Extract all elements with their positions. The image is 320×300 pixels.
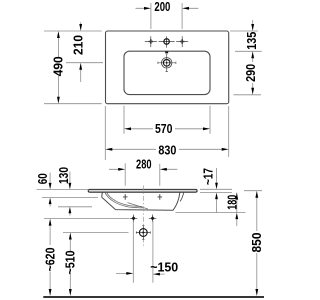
~17 top outside arrow [215, 183, 218, 190]
dim ~17: stems [216, 168, 218, 213]
dim 570: extension lines [124, 106, 210, 134]
drain (front view) [136, 226, 150, 240]
svg-text:290: 290 [244, 64, 258, 82]
dim 850: line [256, 197, 258, 292]
dim 200: line + outside stems [136, 7, 199, 9]
150 left outside arrow [126, 272, 133, 275]
drain center dot [166, 62, 168, 64]
svg-text:210: 210 [71, 35, 85, 55]
dim 60: lower boundary ext [42, 197, 98, 199]
fixing hole upper-left (cross) [123, 194, 128, 200]
dim 850: top ext [244, 190, 262, 192]
dim 150: extension lines [133, 221, 153, 283]
svg-text:200: 200 [154, 0, 170, 14]
arrowheads, top view [57, 7, 254, 151]
drain outer circle [162, 58, 172, 68]
bowl inner curve line 1 [107, 192, 143, 206]
washbasin outer rim (plan) [106, 31, 229, 104]
centerline (dash-dot) [142, 186, 144, 249]
floor line [43, 296, 264, 298]
dim 510: line [69, 238, 71, 291]
lower fixing point right (diamond) [149, 215, 157, 223]
lower fixing level ext [44, 218, 129, 220]
svg-text:~620: ~620 [43, 247, 57, 271]
rim slab (front view, filled bar) [88, 189, 197, 192]
dim 280: extension lines [125, 163, 160, 186]
svg-text:180: 180 [226, 195, 240, 210]
135/290 shared arrow at 51.3 [251, 51, 254, 58]
830 right arrow [222, 148, 229, 151]
210 top outside arrow [79, 24, 82, 31]
200 right outside arrow [182, 7, 189, 10]
fixing hole upper-right (cross) [158, 194, 163, 200]
svg-text:850: 850 [250, 232, 264, 252]
dim 130: lower stem [69, 212, 71, 216]
svg-text:~510: ~510 [64, 250, 78, 274]
510 bottom arrow [69, 289, 72, 296]
bowl right inner hook [180, 192, 184, 201]
dimension texts, lower view [36, 158, 264, 275]
faucet hole left (cross) [145, 36, 157, 47]
dim 830: extension lines [105, 106, 228, 160]
lower fixing point left (diamond) [130, 215, 138, 223]
dim 570: line [130, 128, 204, 130]
svg-text:135: 135 [245, 32, 259, 50]
svg-text:130: 130 [57, 167, 71, 184]
arrowheads, lower view [49, 168, 259, 296]
slab top extension left [37, 188, 89, 190]
svg-text:60: 60 [36, 173, 50, 184]
570 left arrow [124, 127, 131, 130]
dim 280: outside stems [109, 168, 177, 170]
dim ~17: extension lines [200, 189, 232, 192]
130 top outside arrow [69, 183, 72, 190]
bowl underside outline [102, 192, 180, 210]
~17 bottom outside arrow [215, 193, 218, 200]
dim 620: line [49, 224, 51, 291]
dim 130: upper stem [69, 172, 71, 185]
dim 200: extension lines [151, 3, 182, 29]
dim 290: line segments [252, 56, 254, 90]
280 left outside arrow [118, 168, 125, 171]
60 top outside arrow [49, 183, 52, 190]
bowl inner curve line 2 [105, 192, 143, 208]
dim 210: lower boundary line (drain centerline ext) [66, 62, 103, 64]
290 bottom arrow [251, 88, 254, 95]
dim 60: lower stem [49, 203, 51, 207]
dim 150: left stem [116, 272, 165, 275]
dim 490: extension lines [44, 31, 102, 104]
bowl diagonal strut [128, 203, 149, 209]
faucet hole right (cross) [176, 36, 188, 47]
drain inner circle [163, 60, 170, 67]
180 bottom outside arrow [235, 213, 238, 220]
280 right outside arrow [160, 168, 167, 171]
svg-text:830: 830 [158, 144, 176, 158]
490 top arrow [57, 31, 60, 38]
drain (plan): crosshair [158, 54, 176, 72]
dim 135: upper stem [252, 20, 254, 25]
620 bottom arrow [49, 289, 52, 296]
135 top outside arrow [251, 24, 254, 31]
dim 130: lower boundary ext [58, 206, 92, 208]
dim 135/290: extension lines right [230, 31, 262, 95]
svg-text:490: 490 [52, 56, 66, 76]
dimension texts, top view [52, 0, 260, 158]
210 bottom outside arrow [79, 63, 82, 70]
dim 60: upper stem [49, 173, 51, 185]
130 bottom outside arrow [69, 207, 72, 214]
dim 830: line [111, 148, 223, 150]
svg-text:~17: ~17 [201, 168, 215, 185]
490 bottom arrow [57, 97, 60, 104]
510 top arrow [69, 233, 72, 240]
dim 210: stems [80, 22, 82, 82]
faucet hole middle (circle + cross) [159, 36, 175, 47]
svg-text:280: 280 [136, 158, 152, 172]
drain level ext [63, 232, 129, 234]
850 bottom arrow [255, 289, 258, 296]
180 top arrow [235, 193, 238, 200]
830 left arrow [105, 148, 112, 151]
200 left outside arrow [144, 7, 151, 10]
dim 180: line [236, 193, 238, 226]
620 top arrow [49, 219, 52, 226]
overflow mark [165, 51, 168, 53]
850 top arrow [255, 191, 258, 198]
570 right arrow [203, 127, 210, 130]
60 bottom outside arrow [49, 198, 52, 205]
dim 180: top ext (from bowl) [176, 212, 246, 214]
svg-text:~150: ~150 [150, 260, 178, 274]
150 right outside arrow [153, 273, 160, 276]
svg-text:570: 570 [155, 122, 173, 136]
dim 490: line [57, 37, 59, 98]
basin inner bowl (plan) [124, 51, 210, 94]
